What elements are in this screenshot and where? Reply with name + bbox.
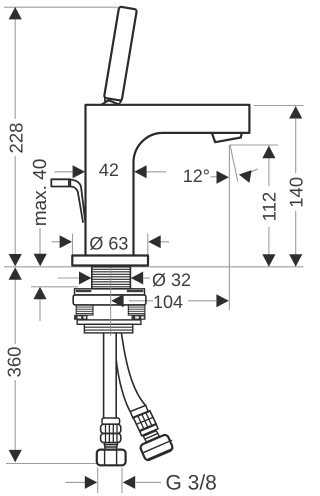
right braid end ring [140,424,159,436]
node: arrow 228 bottom at deck [9,254,22,266]
flange dark band left [76,290,92,292]
bottom block line 1 [84,326,132,328]
handle foot step left [105,98,109,101]
claw wing left [74,315,88,320]
right hose tube left edge [116,361,130,412]
wire: diameter 32 left leader [58,277,79,279]
aerator [212,134,242,143]
svg-text:360: 360 [3,347,24,378]
wire: G38 right leader [136,481,161,483]
claw wing right notch [135,316,139,318]
flange dark band right [127,290,144,292]
body and spout outline [86,105,250,256]
spring left [76,305,93,315]
right hose ferrule [130,405,148,418]
wire: 104 left leader [129,300,153,302]
svg-text:104: 104 [153,292,183,312]
wire: diameter 63 right leader [161,241,170,243]
wire: G38 left extension line [97,468,99,494]
svg-text:max. 40: max. 40 [30,159,51,227]
node: arrow 12deg left-pointing tilted [239,170,252,183]
handle foot step right [119,101,121,104]
left pipe left edge [103,333,105,418]
wire: G38 right extension line [121,468,123,494]
node: arrow 42 left [73,165,85,178]
node: arrow d32 right [131,272,143,285]
drain rod lower line [70,186,83,222]
left hose braid barrel 2 [101,433,121,442]
wire: 140 dimension line upper segment [295,106,297,173]
lever handle [104,7,137,101]
wire: 42 left leader [55,171,74,173]
svg-text:G 3/8: G 3/8 [166,472,217,495]
wire: 12deg leader stub [211,176,218,178]
wire: diameter 63 left extension line [72,234,74,255]
svg-text:228: 228 [5,123,26,154]
wire: 360 dimension line lower segment [14,380,16,462]
wire: 12deg vertical reference line (spout tip axis) [228,145,230,310]
left hose nut [97,450,126,466]
node: arrow 112 up [262,146,275,158]
svg-text:112: 112 [258,192,279,222]
wire: aerator level extension line to 112 [230,144,278,146]
svg-text:140: 140 [285,177,306,208]
bottom block [84,324,132,333]
svg-text:42: 42 [99,160,119,180]
claw wing right notch 2 [141,316,144,318]
node: arrow 12deg right-pointing [217,171,229,184]
wire: G38 left leader [66,481,91,483]
wire: max40 lower arrow tail [39,297,41,322]
node: arrow max40 up below deck [33,287,46,299]
node: arrow 104 left [111,294,123,307]
node: arrow 140 up [289,106,302,118]
right braid barrel band [133,411,156,432]
left nut facet line 1 [104,450,106,465]
lower wide bar [77,320,141,324]
right hose collar [143,431,159,442]
wire: diameter 32 right leader [144,277,151,279]
threaded shank thread lines [92,269,131,287]
wire: diameter 63 right extension line [147,234,149,255]
wire: max40 lower reference line [31,286,78,288]
washer bar [73,295,146,305]
node: arrow d63 right [148,235,160,248]
node: arrow G38 left [85,476,97,489]
bottom block line 2 [84,329,132,331]
right hose nut [139,434,173,462]
node: arrow G38 right [123,476,135,489]
wire: 12deg right leader slanted [250,169,258,173]
wire: 12deg slanted reference line [230,145,238,182]
node: arrow 42 right [134,165,146,178]
claw wing left notch 2 [83,316,86,318]
left hose collar [104,443,117,450]
node: arrow d32 left [79,272,91,285]
wire: 112 dimension line lower segment [268,227,270,267]
node: arrow 104 right [216,294,228,307]
node: arrow 112 down [262,254,275,266]
wire: body top extension line to 140 [254,105,304,107]
svg-text:Ø 63: Ø 63 [89,233,128,253]
node: arrow 228 top [9,7,22,19]
node: arrow d63 left [60,235,72,248]
claw wing right [132,315,146,320]
node: arrow 360 bottom [9,450,22,462]
node: arrow 140 down [289,254,302,266]
drain rod upper line [70,180,85,222]
base plate [72,256,148,266]
wire: 140 dimension line lower segment [295,211,297,267]
wire: deck reference line at mounting surface [4,266,304,268]
node: arrow max40 down at deck [34,254,47,266]
right hose tube right edge [122,334,146,406]
right nut facet line 1 [144,440,172,452]
wire: 228 dimension line lower segment [14,156,16,257]
handle foot wedge [102,100,118,104]
wire: 360 dimension line upper segment [14,277,16,344]
flange ring [75,289,145,295]
wire: 104 right leader [188,300,216,302]
left hose ferrule [102,418,120,424]
wire: diameter 63 left leader [52,241,61,243]
wire: max40 dimension line upper [39,228,41,257]
spring right [128,305,145,315]
drain knob face line [68,179,70,186]
left nut facet line 2 [116,450,118,465]
centerline [110,268,112,337]
wire: 112 dimension line upper segment [268,146,270,186]
svg-text:Ø 32: Ø 32 [152,270,191,290]
right nut facet line 2 [149,448,173,459]
left pipe right edge [115,333,117,418]
node: arrow 360 top at deck [9,267,22,279]
left hose braid barrel 1 [101,424,121,433]
threaded shank outline [92,267,131,289]
wire: 42 right leader [146,171,166,173]
wire: 228 dimension line upper segment [14,7,16,119]
claw wing left notch [78,316,82,318]
svg-text:12°: 12° [183,166,210,186]
wire: top extension line at handle top level [4,6,118,8]
drain knob [51,179,70,186]
wire: hose end reference line [6,463,96,465]
